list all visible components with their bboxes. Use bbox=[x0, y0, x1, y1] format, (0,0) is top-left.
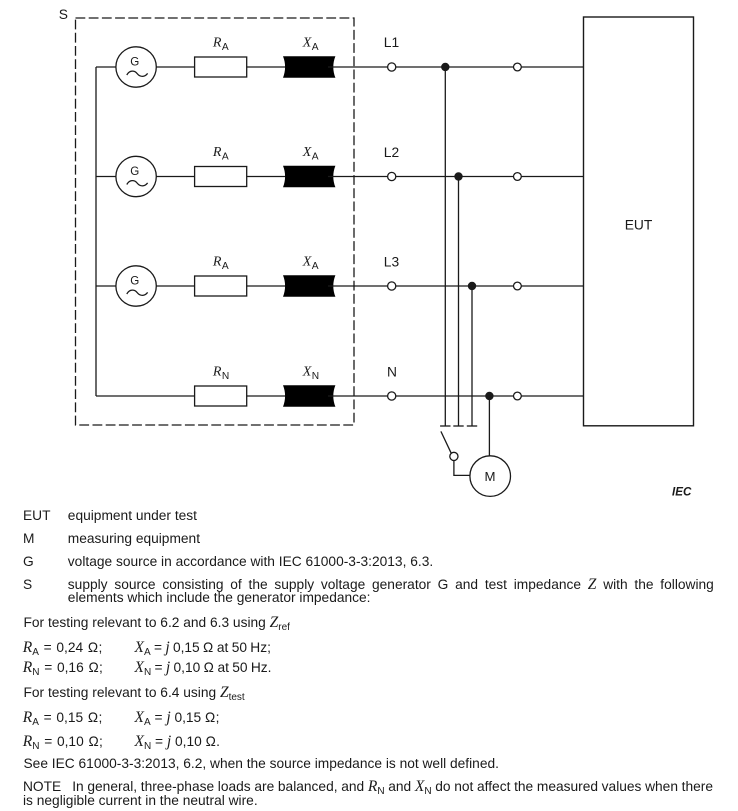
wire L1 to EUT terminal bbox=[396, 66, 514, 68]
wire drop L3 bbox=[471, 286, 473, 426]
svg-text:R: R bbox=[212, 365, 222, 380]
node L1 junction bbox=[441, 63, 449, 71]
wire XN to terminal N bbox=[328, 395, 388, 397]
switch contact tick L2 bbox=[453, 425, 463, 427]
terminal L2 bbox=[388, 172, 396, 180]
wire RN to XN bbox=[247, 395, 292, 397]
wire terminal to EUT row3 bbox=[521, 285, 583, 287]
terminal EUT L1 bbox=[514, 63, 522, 71]
svg-text:X: X bbox=[302, 36, 312, 51]
terminal N bbox=[388, 392, 396, 400]
svg-text:IEC: IEC bbox=[672, 486, 692, 499]
wire terminal to EUT row1 bbox=[521, 66, 583, 68]
switch contact tick L1 bbox=[440, 425, 450, 427]
svg-text:A: A bbox=[222, 152, 229, 163]
svg-text:R: R bbox=[212, 255, 222, 270]
LEGEND bbox=[23, 508, 51, 523]
wire bus corner to RN bbox=[96, 395, 195, 397]
svg-text:R: R bbox=[212, 145, 222, 160]
svg-text:X: X bbox=[302, 365, 312, 380]
enclosure S dashed box bbox=[76, 18, 355, 425]
wire terminal to EUT row4 bbox=[521, 395, 583, 397]
resistor RA row1 bbox=[195, 57, 247, 77]
wire G1 to RA1 bbox=[156, 66, 194, 68]
wire L2 to EUT terminal bbox=[396, 176, 514, 178]
svg-text:A: A bbox=[312, 152, 319, 163]
wire N to EUT terminal bbox=[396, 395, 514, 397]
wire drop L2 bbox=[458, 177, 460, 427]
svg-text:N: N bbox=[312, 371, 319, 382]
wire drop L1 bbox=[444, 67, 446, 426]
wire XA3 to terminal L3 bbox=[328, 285, 388, 287]
wire XA1 to terminal L1 bbox=[328, 66, 388, 68]
resistor RN bbox=[195, 386, 247, 406]
generator G2 bbox=[116, 156, 156, 196]
svg-text:A: A bbox=[222, 42, 229, 53]
svg-text:EUT: EUT bbox=[625, 218, 653, 233]
svg-text:G: G bbox=[130, 165, 139, 178]
wire drop N to M bbox=[488, 396, 490, 456]
node L2 junction bbox=[454, 172, 462, 180]
svg-text:A: A bbox=[222, 261, 229, 272]
svg-text:R: R bbox=[212, 36, 222, 51]
wire RA3 to XA3 bbox=[247, 285, 292, 287]
switch lever bbox=[441, 431, 451, 453]
EUT box bbox=[584, 17, 694, 426]
switch pole circle bbox=[450, 452, 458, 460]
wire G3 to RA3 bbox=[156, 285, 194, 287]
wire XA2 to terminal L2 bbox=[328, 176, 388, 178]
terminal EUT N bbox=[514, 392, 522, 400]
svg-text:N: N bbox=[222, 371, 229, 382]
resistor RA row3 bbox=[195, 276, 247, 296]
svg-text:A: A bbox=[312, 42, 319, 53]
svg-text:S: S bbox=[59, 7, 68, 22]
svg-text:L2: L2 bbox=[384, 145, 399, 160]
reactor XA row3 bbox=[283, 275, 335, 296]
wire switch to M bbox=[454, 461, 470, 476]
svg-text:M: M bbox=[485, 469, 496, 484]
svg-text:L3: L3 bbox=[384, 255, 400, 270]
svg-text:L1: L1 bbox=[384, 35, 399, 50]
generator G1 bbox=[116, 47, 156, 87]
wire L3 to EUT terminal bbox=[396, 285, 514, 287]
wire terminal to EUT row2 bbox=[521, 176, 583, 178]
generator G3 bbox=[116, 266, 156, 306]
terminal EUT L3 bbox=[514, 282, 522, 290]
terminal L1 bbox=[388, 63, 396, 71]
wire left bus bbox=[95, 67, 97, 396]
svg-text:A: A bbox=[312, 261, 319, 272]
reactor XN bbox=[283, 385, 335, 406]
wire bus to G2 bbox=[96, 176, 116, 178]
node N junction bbox=[485, 392, 493, 400]
wire RA2 to XA2 bbox=[247, 176, 292, 178]
reactor XA row1 bbox=[283, 56, 335, 77]
wire RA1 to XA1 bbox=[247, 66, 292, 68]
switch contact tick L3 bbox=[467, 425, 477, 427]
resistor RA row2 bbox=[195, 167, 247, 187]
svg-text:X: X bbox=[302, 145, 312, 160]
reactor XA row2 bbox=[283, 166, 335, 187]
terminal L3 bbox=[388, 282, 396, 290]
wire G2 to RA2 bbox=[156, 176, 194, 178]
wire bus to G3 bbox=[96, 285, 116, 287]
svg-text:G: G bbox=[130, 55, 139, 68]
node L3 junction bbox=[468, 282, 476, 290]
measuring equipment M bbox=[470, 456, 511, 497]
svg-text:N: N bbox=[387, 365, 397, 380]
terminal EUT L2 bbox=[514, 173, 522, 181]
wire bus to G1 bbox=[96, 66, 116, 68]
svg-text:G: G bbox=[130, 274, 139, 287]
svg-text:X: X bbox=[302, 255, 312, 270]
